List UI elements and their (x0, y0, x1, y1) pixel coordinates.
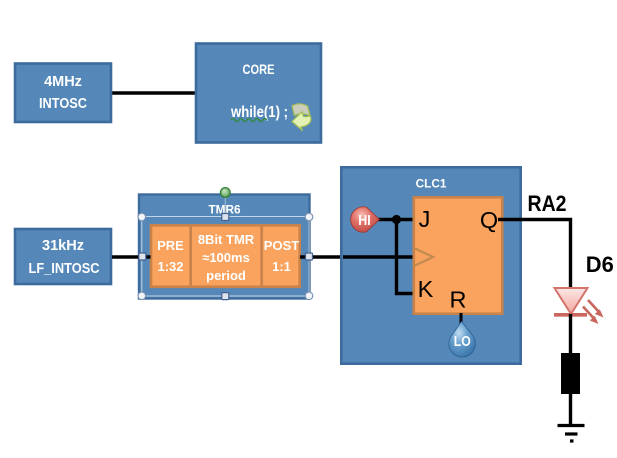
selection handle right-middle (306, 253, 313, 260)
CORE block (196, 44, 321, 143)
TMR6 scaler container (151, 225, 300, 286)
svg-text:LF_INTOSC: LF_INTOSC (29, 261, 100, 277)
svg-text:HI: HI (358, 213, 371, 229)
net label RA2 (528, 191, 567, 216)
svg-text:LO: LO (454, 334, 471, 350)
LED emission arrow 2 (583, 307, 599, 325)
selection rectangle (142, 217, 309, 297)
junction dot (392, 215, 401, 224)
resistor (561, 353, 580, 394)
svg-text:POST: POST (264, 238, 299, 253)
rotation handle (221, 188, 231, 198)
pin Q (480, 207, 498, 233)
TMR6 block (139, 195, 310, 299)
wire: R input to LO (460, 313, 463, 327)
svg-text:INTOSC: INTOSC (39, 96, 87, 112)
wire: 4MHz INTOSC to CORE (110, 91, 198, 94)
timer cell 8Bit TMR (198, 225, 262, 286)
svg-text:CLC1: CLC1 (416, 177, 447, 191)
svg-text:K: K (418, 276, 434, 302)
svg-text:4MHz: 4MHz (44, 74, 82, 90)
svg-text:D6: D6 (586, 252, 614, 277)
oscillator block 31kHz LF_INTOSC (15, 229, 111, 284)
svg-text:1:1: 1:1 (272, 259, 291, 274)
selection handle left-middle (139, 253, 146, 260)
LED emission arrow 1 (588, 300, 604, 318)
selection handle bottom-middle (222, 293, 229, 300)
wire: resistor to ground (569, 394, 572, 425)
rotation handle stem (224, 197, 226, 214)
CLC1 block (341, 167, 520, 363)
selection handle bottom-right (305, 292, 313, 300)
wire: TMR6 signal to clock input (343, 255, 414, 258)
LED cathode bar (554, 313, 587, 317)
svg-text:Q: Q (480, 207, 498, 233)
JK flip-flop box (414, 197, 502, 313)
svg-text:RA2: RA2 (528, 191, 567, 216)
pin J (419, 206, 431, 232)
selection handle top-middle (222, 214, 229, 221)
svg-text:CORE: CORE (243, 61, 275, 77)
svg-text:8Bit TMR: 8Bit TMR (198, 232, 255, 247)
HI constant flag (351, 207, 380, 232)
wire: HI to J input (374, 218, 414, 221)
selection handle top-right (305, 213, 313, 221)
svg-text:PRE: PRE (157, 238, 184, 253)
svg-text:period: period (206, 268, 246, 283)
svg-text:1:32: 1:32 (157, 259, 183, 274)
wire: junction down to K input (397, 220, 415, 294)
wire: Q output to RA2 and LED (498, 220, 571, 290)
clock chevron (415, 249, 433, 266)
svg-text:31kHz: 31kHz (42, 238, 84, 254)
LO constant flag (449, 322, 476, 357)
LED D6 triangle (555, 288, 588, 314)
svg-text:R: R (450, 287, 467, 313)
postscaler POST 1:1 (264, 238, 299, 274)
prescaler PRE 1:32 (157, 225, 191, 286)
selection handle top-left (138, 213, 146, 221)
wire: 31kHz LF_INTOSC to TMR6 prescaler (112, 255, 151, 258)
label D6 (586, 252, 614, 277)
code label while(1) ; (230, 104, 288, 121)
oscillator block 4MHz INTOSC (15, 64, 111, 123)
ground (558, 426, 585, 442)
loop arrow icon (292, 104, 311, 131)
svg-text:while(1) ;: while(1) ; (230, 104, 288, 121)
spellcheck squiggle under while (231, 119, 267, 122)
svg-text:J: J (419, 206, 431, 232)
pin K (418, 276, 434, 302)
pin R (450, 287, 467, 313)
wire: TMR6 postscaler to CLC1 (300, 255, 342, 258)
selection handle bottom-left (138, 292, 146, 300)
svg-text:≈100ms: ≈100ms (202, 250, 250, 265)
wire: LED to resistor (569, 314, 572, 354)
